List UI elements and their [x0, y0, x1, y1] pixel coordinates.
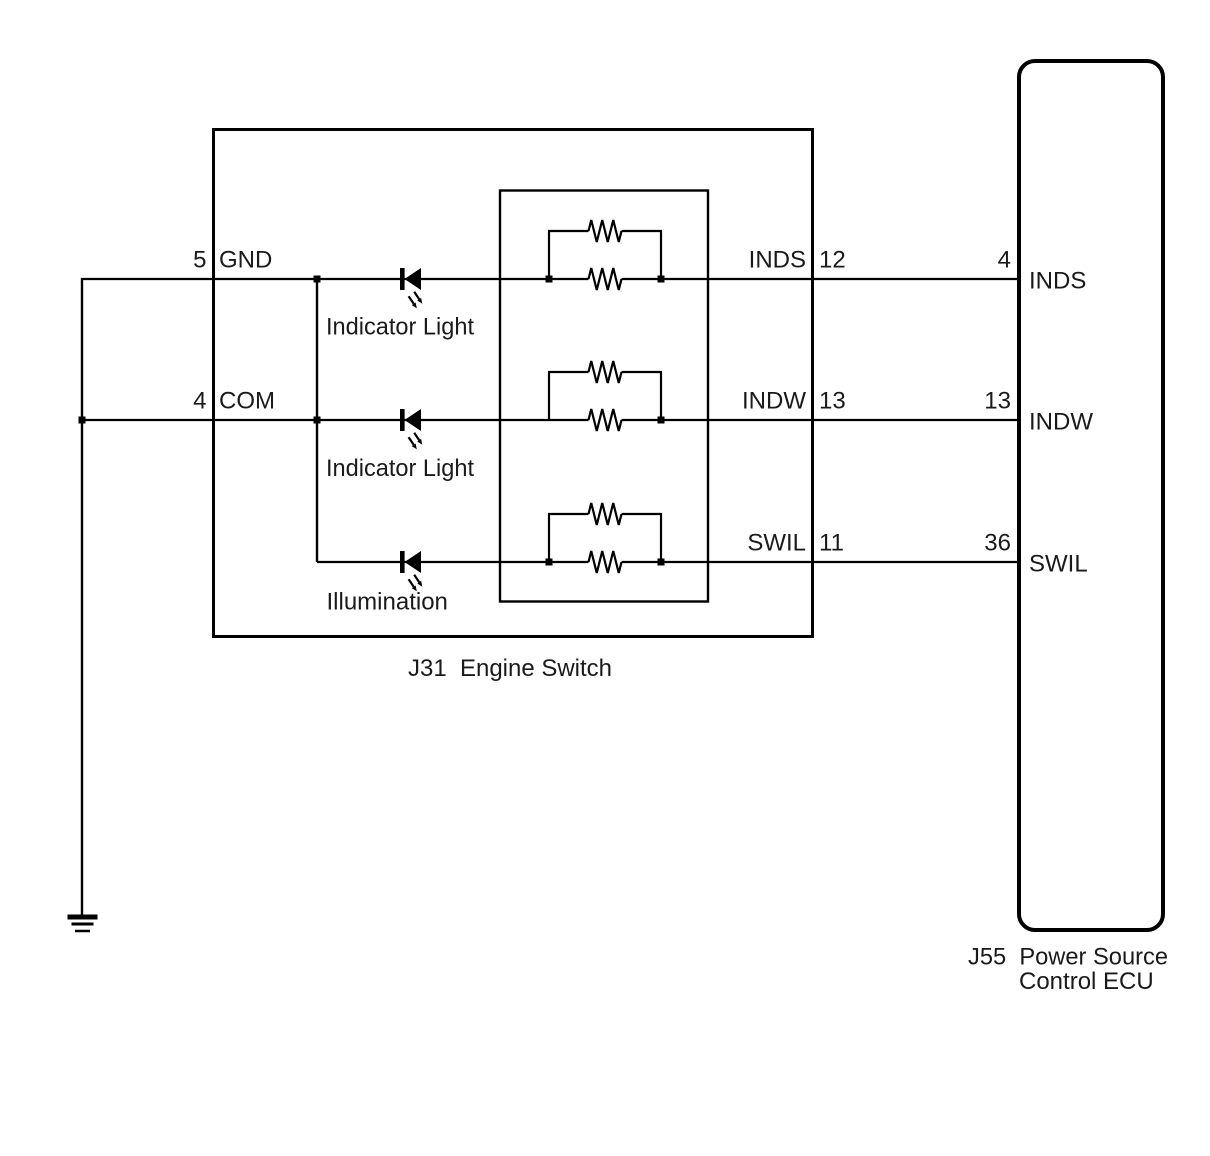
- LED D1 Indicator Light: [400, 268, 422, 308]
- connector J55 Power Source Control ECU box: [1019, 61, 1163, 930]
- wire ground drop: [81, 278, 83, 915]
- wire trunk (LED common): [316, 279, 318, 562]
- svg-text:Indicator Light: Indicator Light: [326, 314, 474, 341]
- wire bridge right vertical: [660, 514, 662, 562]
- svg-text:SWIL: SWIL: [747, 530, 806, 557]
- svg-text:COM: COM: [219, 388, 275, 415]
- svg-text:INDS: INDS: [1029, 268, 1086, 295]
- svg-text:INDS: INDS: [749, 247, 806, 274]
- svg-text:13: 13: [984, 388, 1011, 415]
- svg-text:4: 4: [998, 247, 1011, 274]
- svg-text:4: 4: [193, 388, 206, 415]
- LED D2 Indicator Light: [400, 409, 422, 449]
- svg-text:SWIL: SWIL: [1029, 551, 1088, 578]
- resistor R3a (series, on wire): [589, 551, 622, 573]
- resistor R1b (parallel, on bridge): [589, 220, 622, 242]
- svg-text:12: 12: [819, 247, 846, 274]
- svg-text:Control ECU: Control ECU: [1019, 968, 1154, 995]
- junction R1 left: [546, 276, 553, 283]
- resistor block inner box: [500, 191, 708, 602]
- wire SWIL row (to ECU pin 36): [317, 561, 1019, 563]
- svg-text:36: 36: [984, 530, 1011, 557]
- junction R3 left: [546, 559, 553, 566]
- junction trunk/GND row: [314, 276, 321, 283]
- svg-text:J31 Engine Switch: J31 Engine Switch: [408, 655, 612, 682]
- wire COM row (pin 4 to ECU pin 13): [81, 419, 1019, 421]
- svg-text:13: 13: [819, 388, 846, 415]
- svg-text:J55 Power Source: J55 Power Source: [968, 944, 1168, 971]
- wire GND row (pin 5 to ECU pin 4): [81, 278, 1019, 280]
- wire bridge right vertical: [660, 372, 662, 420]
- svg-text:11: 11: [819, 530, 844, 557]
- wire bridge top leads: [548, 371, 662, 373]
- junction trunk/COM row: [314, 417, 321, 424]
- svg-text:INDW: INDW: [742, 388, 806, 415]
- LED D3 Illumination: [400, 551, 422, 591]
- junction R3 right: [658, 559, 665, 566]
- resistor R3b (parallel, on bridge): [589, 503, 622, 525]
- connector J31 Engine Switch box: [214, 130, 813, 637]
- svg-text:Illumination: Illumination: [327, 589, 448, 616]
- wire bridge top leads: [548, 230, 662, 232]
- wire bridge right vertical: [660, 231, 662, 279]
- svg-text:Indicator Light: Indicator Light: [326, 455, 474, 482]
- svg-text:INDW: INDW: [1029, 409, 1093, 436]
- resistor R2a (series, on wire): [589, 409, 622, 431]
- resistor R1a (series, on wire): [589, 268, 622, 290]
- svg-text:5: 5: [193, 247, 206, 274]
- wire bridge left vertical: [548, 514, 550, 562]
- wire bridge top leads: [548, 513, 662, 515]
- resistor R2b (parallel, on bridge): [589, 361, 622, 383]
- wire bridge left vertical: [548, 372, 550, 420]
- ground: [68, 917, 98, 931]
- svg-text:GND: GND: [219, 247, 272, 274]
- junction R1 right: [658, 276, 665, 283]
- wire bridge left vertical: [548, 231, 550, 279]
- junction ground drop/COM row: [79, 417, 86, 424]
- junction R2 right: [658, 417, 665, 424]
